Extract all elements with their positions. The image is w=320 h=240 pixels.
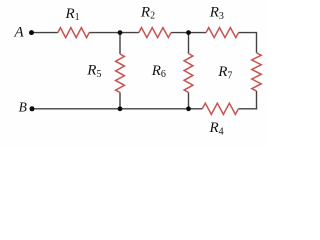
junction bottom R5 <box>118 106 123 111</box>
wire R7 to bottom-right corner <box>256 91 258 110</box>
node A terminal dot <box>29 30 34 35</box>
junction top R5 <box>118 30 123 35</box>
wire R1 to R2 <box>89 32 139 34</box>
resistor R4 <box>202 103 238 114</box>
resistor R6 <box>184 54 193 93</box>
node B terminal dot <box>30 106 35 111</box>
resistor R2 <box>139 28 171 38</box>
wire bottom-right corner to R4 <box>238 108 257 110</box>
resistor R3 <box>206 28 239 38</box>
junction top R6 <box>186 30 191 35</box>
resistor R1 <box>58 28 89 38</box>
svg-text:A: A <box>14 25 25 41</box>
wire R6 top branch <box>188 33 190 54</box>
svg-text:R2: R2 <box>140 4 155 21</box>
wire R3 to top-right corner <box>239 32 257 34</box>
wire R5 bottom branch <box>119 93 121 109</box>
resistor R7 <box>252 53 261 91</box>
junction bottom R6 <box>186 106 191 111</box>
svg-text:R1: R1 <box>65 6 80 23</box>
svg-text:R4: R4 <box>209 120 224 137</box>
resistor R5 <box>116 54 125 93</box>
wire A to R1 <box>34 32 58 34</box>
wire R2 to R3 <box>171 32 206 34</box>
wire R6 bottom branch <box>188 93 190 109</box>
svg-text:R5: R5 <box>86 63 101 80</box>
svg-text:R3: R3 <box>209 5 224 22</box>
wire B to R4 (bottom rail) <box>32 108 202 110</box>
wire R5 top branch <box>119 33 121 54</box>
svg-text:R6: R6 <box>151 63 166 80</box>
wire top-right corner down to R7 <box>256 32 258 53</box>
svg-text:B: B <box>19 100 27 115</box>
svg-text:R7: R7 <box>217 64 232 81</box>
